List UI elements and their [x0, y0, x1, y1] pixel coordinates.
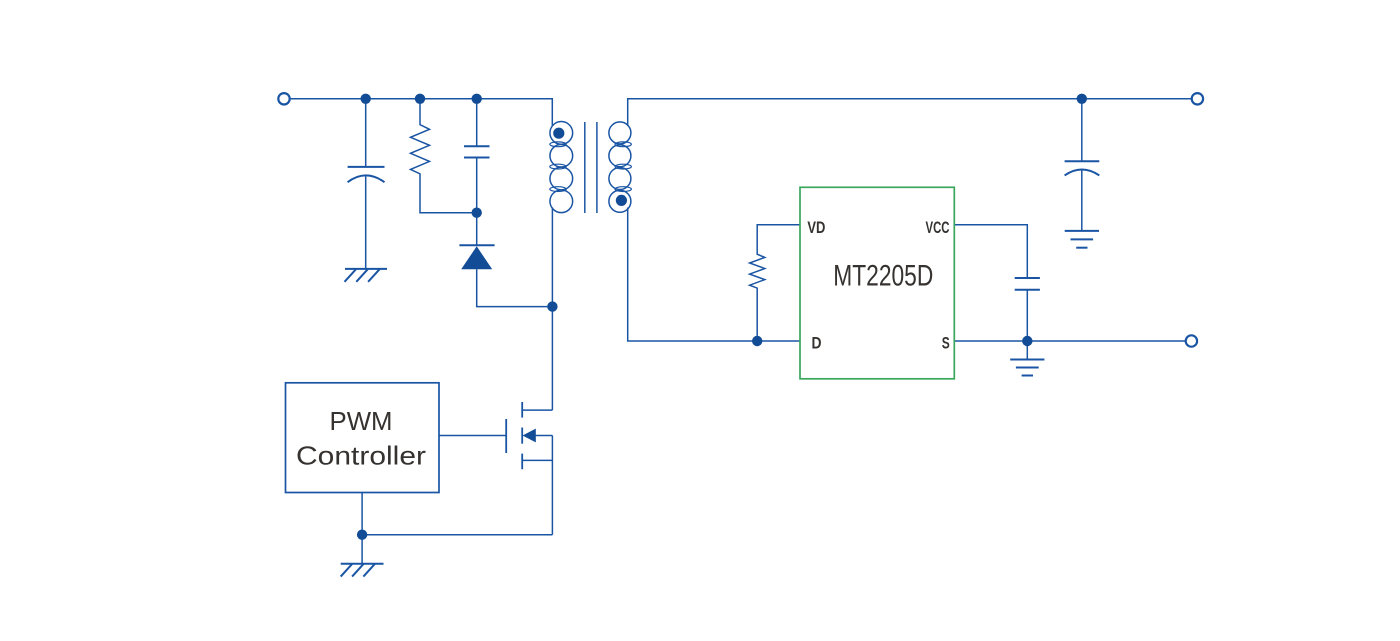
svg-text:MT2205D: MT2205D [833, 260, 933, 293]
svg-text:D: D [812, 333, 822, 352]
svg-text:S: S [942, 333, 950, 352]
svg-text:PWM: PWM [330, 406, 393, 436]
svg-text:VD: VD [807, 218, 825, 237]
svg-text:VCC: VCC [926, 218, 950, 237]
svg-text:Controller: Controller [296, 441, 426, 471]
